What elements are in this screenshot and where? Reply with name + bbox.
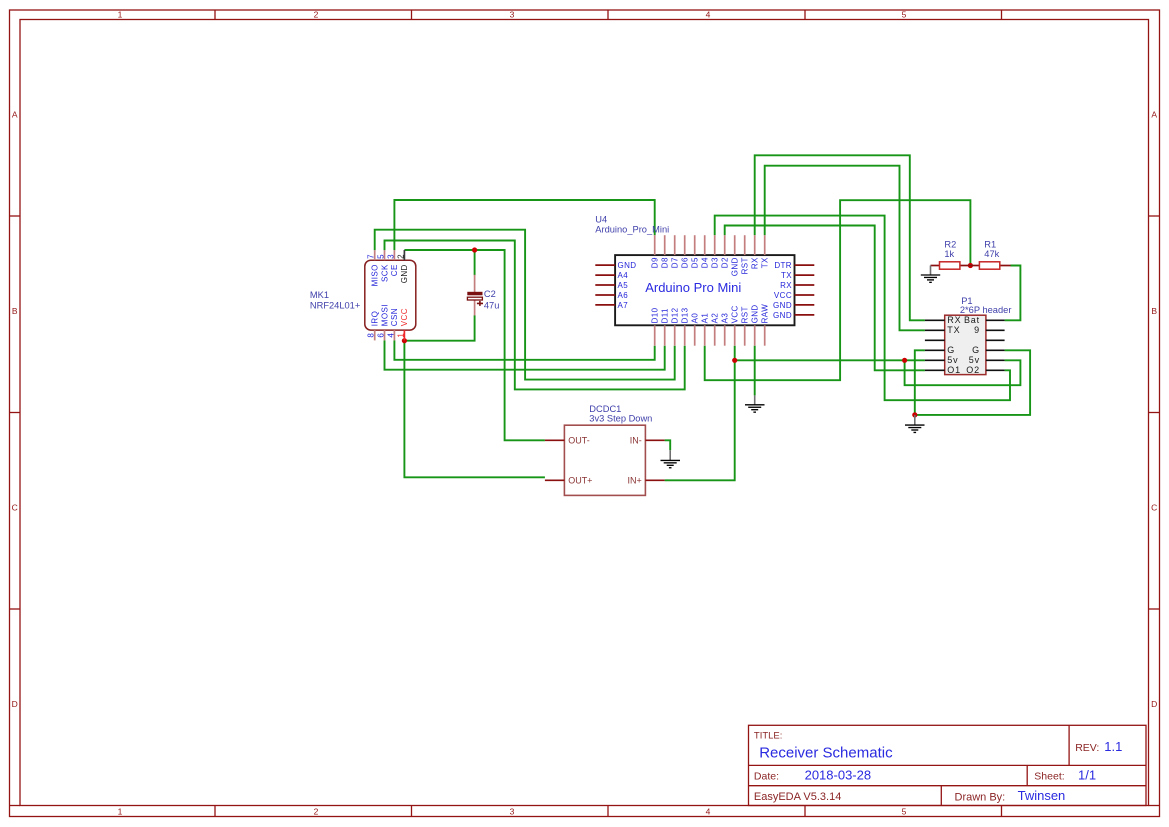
U4 top pin D6 — [681, 235, 690, 268]
U4 top pin TX — [761, 235, 770, 268]
U4 right pin VCC — [774, 291, 814, 300]
svg-text:IRQ: IRQ — [371, 311, 380, 326]
ground at R2 — [921, 266, 940, 283]
wire 5v right loop — [905, 360, 1021, 385]
capacitor C2 — [467, 275, 483, 316]
P1 left pin row 2 TX — [925, 329, 945, 331]
svg-text:D10: D10 — [651, 307, 660, 323]
wire VCC to DCDC1 OUT+ — [404, 341, 545, 478]
svg-text:4: 4 — [706, 10, 711, 20]
svg-text:D13: D13 — [681, 307, 690, 323]
svg-text:D7: D7 — [671, 257, 680, 268]
ic U4 Arduino_Pro_Mini body — [615, 255, 794, 325]
svg-text:3: 3 — [386, 254, 395, 259]
svg-text:OUT+: OUT+ — [568, 476, 592, 486]
wire RX: U4 RX top to P1 RX — [755, 155, 925, 320]
U4 bottom pin A0 — [691, 313, 700, 346]
wire CE: MK1 pin3 to U4 D9 — [394, 200, 654, 250]
wire CSN: MK1 pin4 to U4 D10 — [394, 340, 654, 359]
MK1 pin 7 MISO — [367, 250, 380, 286]
svg-text:4: 4 — [386, 333, 395, 338]
svg-text:B: B — [12, 306, 18, 316]
U4 left pin A4 — [595, 271, 628, 280]
MK1 pin 2 GND — [396, 250, 409, 283]
U4 bottom pin D13 — [681, 307, 690, 345]
svg-text:6: 6 — [377, 333, 386, 338]
svg-text:D4: D4 — [701, 257, 710, 268]
U4 bottom pin D11 — [661, 308, 670, 346]
header P1 body — [945, 315, 986, 374]
svg-text:RST: RST — [741, 306, 750, 323]
svg-text:A1: A1 — [701, 313, 710, 324]
U4 bottom pin D12 — [671, 307, 680, 345]
module DCDC1 body — [564, 425, 645, 495]
svg-text:VCC: VCC — [731, 305, 740, 323]
svg-text:1k: 1k — [944, 249, 954, 259]
PARTS — [310, 214, 1012, 495]
P1 right pin row 5 5v — [986, 359, 1005, 361]
svg-text:1.1: 1.1 — [1104, 739, 1122, 754]
svg-text:GND: GND — [618, 261, 637, 270]
svg-text:TX: TX — [761, 257, 770, 268]
svg-text:2*6P header: 2*6P header — [960, 305, 1012, 315]
svg-text:Drawn By:: Drawn By: — [955, 791, 1006, 803]
wire U4 GND bottom to ground — [754, 346, 756, 396]
U4 top pin D2 — [721, 235, 730, 268]
svg-text:C: C — [1151, 503, 1157, 513]
svg-text:47k: 47k — [984, 249, 999, 259]
U4 left pin GND — [595, 261, 636, 270]
svg-text:B: B — [1151, 306, 1157, 316]
wire C2 top drop — [474, 250, 476, 275]
U4 bottom pin D10 — [651, 307, 660, 345]
svg-text:Arduino_Pro_Mini: Arduino_Pro_Mini — [595, 225, 669, 235]
svg-text:IN-: IN- — [630, 436, 642, 446]
module MK1 NRF24L01+ body — [365, 260, 416, 330]
svg-text:RX: RX — [751, 257, 760, 269]
DCDC1 pin OUT+ — [545, 476, 593, 486]
svg-text:2: 2 — [314, 807, 319, 817]
MK1 pin 4 CSN — [386, 308, 399, 340]
svg-text:A0: A0 — [691, 313, 700, 324]
svg-text:5v: 5v — [947, 355, 958, 365]
svg-text:1: 1 — [118, 10, 123, 20]
wire A1 to R1/R2 divider — [705, 200, 971, 380]
U4 bottom pin VCC — [731, 305, 740, 345]
svg-text:3: 3 — [510, 10, 515, 20]
U4 top pin D9 — [651, 235, 660, 268]
svg-text:1: 1 — [396, 333, 405, 338]
wire SCK: MK1 pin5 to U4 D13 — [385, 241, 685, 390]
svg-text:D9: D9 — [651, 257, 660, 268]
U4 right pin DTR — [774, 261, 814, 270]
svg-text:MOSI: MOSI — [380, 304, 389, 326]
resistor R1 — [970, 262, 1010, 269]
U4 left pin A7 — [595, 301, 628, 310]
svg-text:SCK: SCK — [380, 264, 389, 282]
junction at U4 VCC column — [732, 358, 737, 363]
svg-text:D2: D2 — [721, 257, 730, 268]
U4 bottom pin A1 — [701, 313, 710, 346]
U4 top pin D4 — [701, 235, 710, 268]
svg-text:2: 2 — [314, 10, 319, 20]
MK1 pin 3 CE — [386, 250, 399, 276]
svg-text:Bat: Bat — [964, 315, 980, 325]
P1 right pin row 1 Bat — [986, 319, 1005, 321]
svg-text:A6: A6 — [618, 291, 629, 300]
svg-text:TITLE:: TITLE: — [754, 731, 783, 742]
svg-text:5: 5 — [377, 254, 386, 259]
svg-text:A2: A2 — [711, 313, 720, 324]
U4 bottom pin GND — [751, 304, 760, 345]
svg-text:GND: GND — [773, 311, 792, 320]
DCDC1 pin IN+ — [628, 476, 665, 486]
wire P1 G right loop to ground — [915, 350, 1030, 415]
U4 top pin RX — [751, 235, 760, 269]
wire P1 G left to ground — [915, 350, 925, 415]
svg-text:2: 2 — [396, 254, 405, 259]
DCDC1 pin OUT- — [545, 436, 590, 446]
svg-text:D3: D3 — [711, 257, 720, 268]
P1 right pin row 6 O2 — [986, 369, 1005, 371]
svg-text:CE: CE — [390, 264, 399, 276]
svg-text:O1: O1 — [947, 365, 961, 375]
U4 left pin A6 — [595, 291, 628, 300]
svg-text:OUT-: OUT- — [568, 436, 590, 446]
svg-text:VCC: VCC — [774, 291, 792, 300]
wire MISO: MK1 pin7 to U4 D12 — [375, 230, 675, 380]
svg-text:TX: TX — [781, 271, 792, 280]
svg-text:1/1: 1/1 — [1078, 767, 1096, 782]
svg-text:GND: GND — [400, 264, 409, 283]
svg-text:47u: 47u — [484, 300, 500, 310]
wire Bat: P1 Bat to R1 — [1005, 266, 1021, 321]
U4 right pin RX — [780, 281, 814, 290]
TITLE BLOCK — [749, 725, 1147, 805]
svg-text:NRF24L01+: NRF24L01+ — [310, 300, 360, 310]
svg-text:G: G — [947, 345, 955, 355]
U4 top pin RST — [741, 235, 750, 274]
svg-text:RX: RX — [780, 281, 792, 290]
svg-text:O2: O2 — [966, 365, 980, 375]
svg-text:A: A — [1151, 110, 1157, 120]
ground below U4 — [745, 395, 765, 412]
svg-text:EasyEDA V5.3.14: EasyEDA V5.3.14 — [754, 791, 841, 803]
svg-text:VCC: VCC — [400, 308, 409, 326]
svg-text:7: 7 — [367, 254, 376, 259]
svg-text:R2: R2 — [944, 239, 956, 249]
svg-text:A5: A5 — [618, 281, 629, 290]
wire D2 to P1 O1 — [725, 226, 925, 371]
svg-text:GND: GND — [731, 257, 740, 276]
svg-text:D11: D11 — [661, 308, 670, 323]
svg-text:D: D — [12, 699, 18, 709]
svg-text:5v: 5v — [969, 355, 980, 365]
wire VCC junction to P1 5v left — [735, 359, 925, 361]
U4 right pin TX — [781, 271, 814, 280]
P1 left pin row 4 G — [925, 349, 945, 351]
wire D3 to P1 O2 — [715, 216, 1010, 401]
ground at DCDC1 IN- — [661, 450, 681, 468]
svg-text:GND: GND — [773, 301, 792, 310]
junction at C2 top — [472, 247, 477, 252]
svg-text:DTR: DTR — [774, 261, 792, 270]
U4 top pin D5 — [691, 235, 700, 268]
svg-text:RX: RX — [947, 315, 961, 325]
svg-text:5: 5 — [902, 807, 907, 817]
svg-text:Date:: Date: — [754, 770, 779, 782]
U4 top pin D7 — [671, 235, 680, 268]
junction at 5v branch — [902, 358, 907, 363]
svg-text:2018-03-28: 2018-03-28 — [805, 767, 872, 782]
WIRES — [375, 155, 1030, 480]
svg-text:Arduino Pro Mini: Arduino Pro Mini — [645, 280, 741, 295]
MK1 pin 8 IRQ — [367, 311, 380, 341]
MK1 pin 5 SCK — [377, 250, 390, 282]
U4 top pin D8 — [661, 235, 670, 268]
svg-text:REV:: REV: — [1075, 742, 1099, 754]
U4 bottom pin A3 — [721, 313, 730, 346]
svg-text:RAW: RAW — [761, 304, 770, 324]
P1 right pin row 3 — [986, 339, 1005, 341]
svg-text:A3: A3 — [721, 313, 730, 324]
svg-text:D5: D5 — [691, 257, 700, 268]
DCDC1 pin IN- — [630, 436, 665, 446]
P1 right pin row 4 G — [986, 349, 1005, 351]
svg-text:5: 5 — [902, 10, 907, 20]
junction at P1 ground — [912, 412, 917, 417]
svg-text:D: D — [1151, 699, 1157, 709]
P1 left pin row 3 — [925, 339, 945, 341]
svg-text:IN+: IN+ — [628, 476, 642, 486]
U4 bottom pin RST — [741, 306, 750, 346]
U4 right pin GND — [773, 301, 814, 310]
svg-text:3v3 Step Down: 3v3 Step Down — [589, 414, 652, 424]
svg-text:GND: GND — [751, 304, 760, 323]
svg-text:C2: C2 — [484, 289, 496, 299]
P1 right pin row 2 9 — [986, 329, 1005, 331]
U4 left pin A5 — [595, 281, 628, 290]
P1 left pin row 5 5v — [925, 359, 945, 361]
svg-text:A4: A4 — [618, 271, 629, 280]
wire VCC net: C2 bottom to MK1 pin1 — [404, 315, 474, 341]
wire DCDC1 IN- to ground — [665, 440, 671, 450]
svg-text:A7: A7 — [618, 301, 629, 310]
svg-text:9: 9 — [974, 325, 980, 335]
svg-text:8: 8 — [367, 333, 376, 338]
U4 top pin D3 — [711, 235, 720, 268]
MK1 pin 1 VCC — [396, 308, 409, 340]
svg-text:1: 1 — [118, 807, 123, 817]
svg-text:TX: TX — [947, 325, 960, 335]
wire GND net: MK1 pin2 to DCDC1 OUT- via C2 top — [404, 250, 545, 440]
U4 top pin GND — [731, 235, 740, 276]
svg-text:Twinsen: Twinsen — [1018, 788, 1066, 803]
svg-text:MISO: MISO — [371, 264, 380, 286]
U4 bottom pin RAW — [761, 304, 770, 346]
svg-text:RST: RST — [741, 257, 750, 274]
svg-text:G: G — [972, 345, 980, 355]
svg-text:3: 3 — [510, 807, 515, 817]
U4 right pin GND — [773, 311, 814, 320]
svg-text:Receiver Schematic: Receiver Schematic — [759, 744, 893, 761]
svg-text:R1: R1 — [984, 239, 996, 249]
junction at R1/R2 divider — [968, 263, 973, 268]
svg-text:U4: U4 — [595, 214, 607, 224]
U4 bottom pin A2 — [711, 313, 720, 346]
resistor R2 — [931, 262, 971, 269]
wire MOSI: MK1 pin6 to U4 D11 — [385, 340, 665, 369]
svg-text:CSN: CSN — [390, 308, 399, 326]
P1 left pin row 6 O1 — [925, 369, 945, 371]
svg-text:D6: D6 — [681, 257, 690, 268]
wire TX: U4 TX top to P1 TX — [765, 166, 925, 331]
svg-text:C: C — [12, 503, 18, 513]
wire IN+ battery net: DCDC1 IN+ to U4 VCC to P1 5v — [665, 346, 735, 481]
svg-text:D12: D12 — [671, 307, 680, 323]
junction at MK1 VCC — [402, 338, 407, 343]
svg-text:MK1: MK1 — [310, 290, 329, 300]
ground at P1 — [905, 415, 925, 433]
svg-text:4: 4 — [706, 807, 711, 817]
svg-text:A: A — [12, 110, 18, 120]
svg-text:Sheet:: Sheet: — [1034, 771, 1064, 783]
svg-text:D8: D8 — [661, 257, 670, 268]
P1 left pin row 1 RX — [925, 319, 945, 321]
MK1 pin 6 MOSI — [377, 304, 390, 340]
